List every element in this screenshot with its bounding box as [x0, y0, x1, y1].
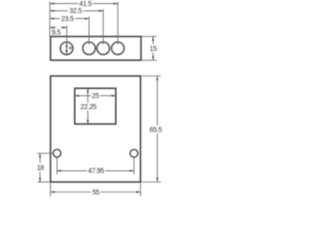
- svg-text:15: 15: [150, 46, 158, 53]
- svg-text:47.95: 47.95: [88, 168, 104, 175]
- svg-text:65.5: 65.5: [149, 127, 162, 134]
- svg-text:25: 25: [92, 93, 100, 100]
- svg-text:55: 55: [92, 189, 100, 196]
- svg-text:18: 18: [37, 165, 45, 172]
- svg-text:23.5: 23.5: [61, 16, 74, 23]
- svg-text:22.25: 22.25: [80, 104, 96, 111]
- svg-text:32.5: 32.5: [69, 8, 82, 15]
- svg-text:9.5: 9.5: [52, 29, 61, 36]
